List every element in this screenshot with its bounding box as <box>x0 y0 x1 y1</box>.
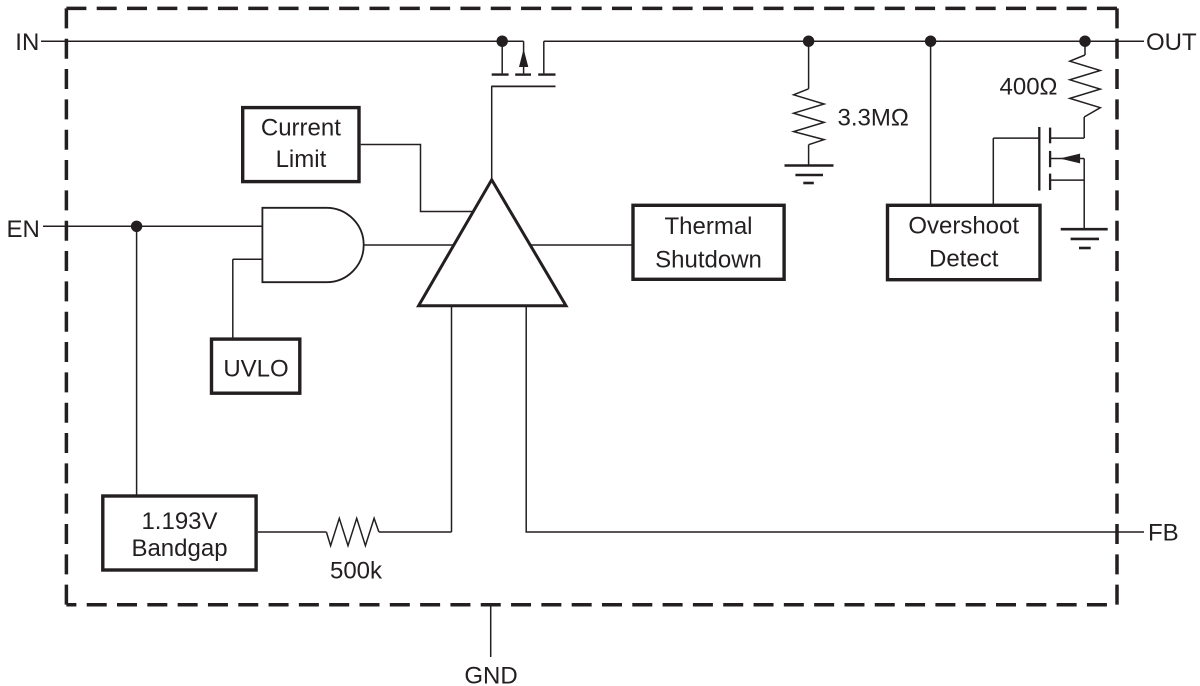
svg-text:Bandgap: Bandgap <box>131 535 227 562</box>
svg-text:3.3MΩ: 3.3MΩ <box>838 105 909 132</box>
svg-text:Overshoot: Overshoot <box>908 213 1019 240</box>
svg-text:Detect: Detect <box>929 246 999 273</box>
svg-text:GND: GND <box>464 663 517 686</box>
svg-text:FB: FB <box>1148 519 1179 546</box>
svg-text:UVLO: UVLO <box>223 356 288 383</box>
svg-text:Thermal: Thermal <box>664 213 752 240</box>
svg-text:IN: IN <box>15 29 39 56</box>
svg-text:Current: Current <box>261 114 341 141</box>
svg-text:400Ω: 400Ω <box>1000 74 1058 101</box>
svg-text:1.193V: 1.193V <box>141 508 217 535</box>
svg-text:OUT: OUT <box>1146 29 1197 56</box>
svg-text:Limit: Limit <box>276 146 327 173</box>
svg-text:500k: 500k <box>330 558 383 585</box>
svg-text:Shutdown: Shutdown <box>655 247 762 274</box>
svg-text:EN: EN <box>7 216 40 243</box>
